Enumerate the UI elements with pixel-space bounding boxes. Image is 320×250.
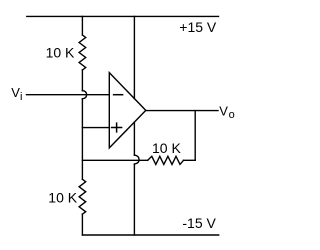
wire feedback right lead: [184, 159, 196, 161]
wire feedback left segment: [82, 159, 147, 161]
wire left branch hop to lower resistor: [81, 99, 83, 180]
wire mid branch -V supply lower: [133, 164, 135, 235]
wire noninverting input: [82, 127, 109, 129]
op-amp minus sign: [114, 94, 123, 96]
op-amp plus sign: [112, 123, 122, 132]
svg-text:10 K: 10 K: [48, 189, 77, 205]
svg-text:10 K: 10 K: [152, 140, 181, 156]
wire left branch upper lead: [81, 16, 83, 35]
resistor R3 10K feedback: [148, 156, 184, 164]
svg-text:10 K: 10 K: [46, 45, 75, 61]
wire mid branch -V supply upper: [133, 122, 135, 155]
svg-text:-15 V: -15 V: [182, 215, 216, 231]
resistor R1 10K upper: [79, 35, 86, 70]
svg-text:Vi: Vi: [11, 85, 22, 103]
wire Vi input: [27, 94, 110, 96]
svg-text:Vo: Vo: [219, 103, 234, 121]
op-amp U1: [109, 73, 146, 148]
wire hop over Vi wire: [82, 91, 86, 99]
wire -15V bottom rail: [82, 234, 218, 236]
wire +15V top rail: [27, 15, 219, 17]
wire output: [146, 110, 218, 112]
wire left branch lower lead to -15V rail: [81, 214, 83, 235]
wire left branch between R1 and hop: [81, 70, 83, 91]
resistor R2 10K lower: [79, 179, 86, 214]
wire hop over feedback wire: [134, 155, 139, 164]
svg-text:+15 V: +15 V: [179, 19, 217, 35]
wire mid branch +V supply: [133, 16, 135, 98]
wire feedback tap: [194, 111, 196, 161]
